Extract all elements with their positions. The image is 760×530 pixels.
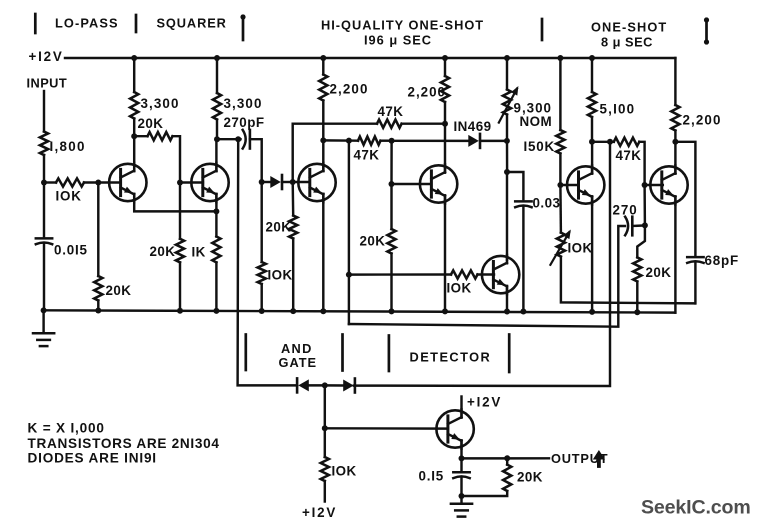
wire cap node down jog to 20K — [637, 225, 645, 257]
wire Q4 base column — [390, 141, 393, 184]
node Q1 collector junction — [131, 133, 137, 139]
wire Q5 base line — [349, 273, 451, 276]
node A input/base junction — [41, 180, 47, 186]
resistor R 20K (Q2 base bias) — [176, 239, 184, 263]
wire 2200-2 down to Q4 collector — [444, 102, 446, 171]
svg-text:0.0I5: 0.0I5 — [54, 243, 88, 258]
diode D1 (squarer) — [270, 175, 282, 189]
wire Q4 base down to 20K — [390, 184, 392, 229]
svg-text:20K: 20K — [646, 265, 672, 280]
wire Q3 emitter to bus — [322, 194, 324, 311]
node AND output junction — [322, 382, 328, 388]
wire Q7 emitter to bus end — [674, 197, 676, 313]
node trigger branch junction — [346, 138, 352, 144]
wire 10K to node B — [84, 181, 98, 183]
svg-text:IOK: IOK — [56, 189, 82, 204]
wire 270pF to corner — [250, 139, 262, 182]
wire 5100 to Q6 collector node — [591, 117, 593, 142]
node rail junction x445 — [442, 55, 448, 61]
wire Q6 base lead — [560, 184, 578, 186]
node label 10K (Q5 base) — [447, 281, 472, 296]
wire Q6 collector — [591, 142, 593, 173]
resistor R 150K — [556, 130, 564, 154]
node label NOM — [520, 114, 553, 129]
transistor Q5 — [482, 255, 519, 294]
node label INPUT — [27, 76, 68, 91]
svg-text:LO-PASS: LO-PASS — [55, 16, 119, 31]
wire node A down to cap — [43, 183, 45, 237]
wire IN469 junction down — [506, 141, 509, 172]
wire 20K Q7base to bus — [636, 282, 638, 313]
transistor Q4 — [420, 164, 457, 203]
wire to 20K feedback — [134, 135, 147, 137]
node detector tick left — [388, 336, 391, 372]
node bus junction x391 — [389, 308, 395, 314]
resistor R 20K (Q7 base) — [633, 257, 641, 281]
resistor R 2,200 (Q4 load) — [441, 76, 449, 102]
svg-text:270pF: 270pF — [224, 115, 265, 130]
node label 47K (lower) — [354, 148, 380, 163]
svg-text:+I2V: +I2V — [302, 505, 337, 520]
wire Q2 collector — [215, 139, 217, 171]
wire 47K right corner to Q7 base — [639, 142, 644, 185]
svg-text:20K: 20K — [517, 470, 543, 485]
wire Q1 emitter down — [134, 194, 216, 211]
wire Q7 base down to cap node — [643, 185, 646, 225]
transistor Q3 — [298, 163, 335, 202]
wire Q1 collector — [133, 136, 135, 170]
svg-text:I50K: I50K — [524, 139, 556, 154]
capacitor C 0.15 — [453, 472, 469, 478]
node label 150K — [524, 139, 556, 154]
wire Q6 emitter to bus — [591, 197, 593, 312]
wire 270 cap right lead — [632, 224, 645, 227]
wire diode cathode lead — [283, 181, 293, 183]
svg-text:GATE: GATE — [279, 355, 318, 370]
transistor Q6 — [567, 165, 604, 204]
resistor R 20K (Q1-Q2 coupling) — [148, 132, 173, 140]
node label 20K (lo-pass) — [106, 283, 132, 298]
wire 150K to Q6 base — [559, 154, 561, 186]
node label 0.015 — [54, 243, 88, 258]
wire Q8 base line — [325, 427, 448, 430]
node label 5,100 — [600, 102, 636, 117]
resistor R 1,800 — [40, 132, 48, 156]
wire ground stub (input) — [42, 310, 44, 333]
svg-text:IOK: IOK — [568, 241, 593, 256]
wire Q6 base down to pot — [559, 185, 562, 233]
wire node B to Q1 base — [98, 181, 120, 183]
wire 10K to Q5 base — [478, 273, 495, 275]
transistor Q8 — [436, 409, 473, 448]
wire trigger junction down — [348, 141, 350, 324]
svg-text:2,200: 2,200 — [330, 82, 369, 97]
svg-text:20K: 20K — [138, 116, 164, 131]
svg-text:2,200: 2,200 — [408, 85, 447, 100]
svg-text:INPUT: INPUT — [27, 76, 68, 91]
wire 3300-1 to Q1 collector node — [133, 119, 135, 137]
svg-text:HI-QUALITY ONE-SHOT: HI-QUALITY ONE-SHOT — [321, 18, 484, 33]
node note transistors — [28, 436, 220, 451]
svg-text:IOK: IOK — [332, 464, 357, 479]
capacitor C 270pF (coupling) — [243, 130, 250, 149]
wire Q2 base node down — [179, 183, 181, 239]
node rail junction x507 — [504, 55, 510, 61]
svg-text:47K: 47K — [354, 148, 380, 163]
node bus junction x507 — [504, 309, 510, 315]
svg-text:2,200: 2,200 — [683, 113, 722, 128]
wire Q3 base node down to 20K — [291, 182, 294, 216]
wire rail to 3300-1 — [133, 58, 135, 92]
svg-text:3,300: 3,300 — [224, 96, 263, 111]
resistor R 10K (squarer shunt) — [258, 262, 266, 284]
node Q2 collector junction — [214, 136, 220, 142]
node one-shot output junction — [607, 139, 613, 145]
node label SQUARER — [157, 16, 227, 31]
node note diodes — [28, 451, 157, 466]
svg-text:DETECTOR: DETECTOR — [410, 350, 492, 365]
node rail junction x560 — [557, 55, 563, 61]
wire AND input 1 column — [238, 139, 298, 385]
node section tick 1 — [34, 14, 37, 33]
node label 1K — [192, 245, 206, 260]
resistor R 47K (upper cross-coupling) — [377, 120, 402, 128]
wire 3300-2 down to node — [216, 120, 218, 140]
svg-text:+I2V: +I2V — [467, 395, 502, 410]
svg-text:0.03: 0.03 — [533, 196, 561, 211]
svg-text:68pF: 68pF — [705, 253, 739, 268]
node label OUTPUT — [551, 451, 608, 466]
svg-text:20K: 20K — [266, 220, 292, 235]
node Q1/Q2 emitter junction — [213, 208, 219, 214]
wire Q2 emitter down — [215, 194, 217, 236]
svg-text:SeekIC.com: SeekIC.com — [641, 497, 751, 519]
wire 20K Q3base to bus — [292, 239, 294, 312]
node label 47K (upper) — [378, 104, 404, 119]
wire 0.03 to bus — [522, 208, 524, 312]
resistor R 2,200 (Q3 load) — [319, 75, 327, 101]
node section tick 5 — [704, 17, 709, 44]
node label GATE — [279, 355, 318, 370]
capacitor C 0.03 — [515, 201, 531, 207]
node bus junction x323 — [320, 308, 326, 314]
resistor R 10K (variable) — [557, 233, 565, 257]
node rail junction x134 — [131, 55, 137, 61]
node section tick 2 — [135, 15, 138, 32]
wire 1800 to node A — [43, 155, 45, 183]
node Q4 collector 47K junction — [442, 121, 448, 127]
svg-text:IOK: IOK — [268, 268, 293, 283]
resistor R 10K (Q5 base) — [451, 270, 478, 278]
wire AND output down — [324, 385, 326, 428]
resistor R 47K (lower cross-coupling) — [358, 137, 381, 145]
node label +12V (bottom) — [302, 505, 337, 520]
node bus junction x592 — [589, 309, 595, 315]
wire 20K Q4base to bus — [390, 254, 392, 312]
svg-text:TRANSISTORS ARE 2NI304: TRANSISTORS ARE 2NI304 — [28, 436, 220, 451]
svg-text:AND: AND — [281, 341, 313, 356]
node watermark SeekIC.com — [641, 497, 751, 519]
svg-text:SQUARER: SQUARER — [157, 16, 227, 31]
svg-text:20K: 20K — [150, 244, 176, 259]
wire 10K to +12V stub — [324, 481, 326, 502]
wire 20K output to ground node — [462, 491, 508, 496]
svg-text:8 μ SEC: 8 μ SEC — [601, 35, 653, 50]
node bus junction x523 — [520, 309, 526, 315]
arrow 9300 pot — [499, 86, 519, 123]
wire rail to 5100 — [591, 58, 593, 92]
node label 2,200 (Q4) — [408, 85, 447, 100]
node bus junction x261 — [259, 308, 265, 314]
wire rail to 150K — [559, 58, 561, 130]
node bus junction x44 — [41, 307, 47, 313]
svg-text:20K: 20K — [360, 234, 386, 249]
node label 9,300 — [514, 101, 553, 116]
resistor R 2,200 (Q7 load) — [671, 105, 679, 131]
wire AND output to D4 — [325, 384, 343, 387]
wire Q2 base lead — [180, 181, 203, 183]
wire Q3 base lead — [293, 181, 310, 183]
wire output line — [462, 457, 550, 460]
node label 20K (feedback) — [138, 116, 164, 131]
node 270 cap junction — [642, 222, 648, 228]
node label 47K (right) — [616, 148, 642, 163]
ground symbol (left) — [33, 333, 54, 346]
arrow 10K pot — [550, 230, 570, 265]
node label 0.15 — [419, 469, 445, 484]
resistor R 10K (lo-pass series) — [56, 178, 84, 186]
wire pot down corner — [561, 257, 695, 304]
node Q2 base junction — [177, 180, 183, 186]
svg-text:DIODES ARE INI9I: DIODES ARE INI9I — [28, 451, 157, 466]
wire Q8 collector stub — [460, 397, 462, 417]
resistor R 9,300 NOM (variable) — [503, 90, 511, 115]
wire rail to 3300-2 — [216, 58, 218, 93]
wire 47K upper to Q4 collector column — [402, 122, 445, 124]
node bus junction x445 — [442, 308, 448, 314]
node label 1,800 — [50, 139, 86, 154]
node ground junction (output) — [459, 493, 465, 499]
wire Q8 base down to 10K — [324, 428, 326, 457]
wire Q5 emitter to bus — [506, 288, 508, 312]
node AND-gate branch junction — [235, 136, 241, 142]
wire 20K output column — [506, 458, 508, 464]
node 20K output junction — [504, 455, 510, 461]
wire rail to 2200-2 — [444, 58, 446, 76]
svg-text:20K: 20K — [106, 283, 132, 298]
node label 10K (output) — [332, 464, 357, 479]
svg-text:5,I00: 5,I00 — [600, 102, 636, 117]
node label DETECTOR — [410, 350, 492, 365]
wire 20K feedback corner — [173, 136, 181, 182]
node and-gate tick right — [341, 335, 344, 371]
wire input lead — [43, 91, 45, 132]
wire Q4 base lead — [392, 183, 432, 185]
wire D3 to AND output — [308, 384, 325, 386]
node Q5 base branch junction — [346, 272, 352, 278]
node output junction — [459, 455, 465, 461]
node label +12V (top-left supply) — [29, 49, 64, 64]
node bus junction x293 — [290, 308, 296, 314]
arrow output — [593, 450, 605, 466]
node label AND — [281, 341, 313, 356]
svg-text:NOM: NOM — [520, 114, 553, 129]
node label 20K (output) — [517, 470, 543, 485]
capacitor C 68pF — [687, 257, 703, 263]
wire node A to 10K — [44, 181, 56, 183]
node section tick 3 — [240, 14, 245, 40]
diode D4 (AND input 2) — [343, 379, 355, 393]
node Q6 collector junction — [589, 139, 595, 145]
svg-text:3,300: 3,300 — [141, 96, 180, 111]
node Q3 base junction — [290, 179, 296, 185]
wire diode anode lead — [262, 181, 271, 183]
svg-text:IN469: IN469 — [454, 119, 492, 134]
node label LO-PASS — [55, 16, 119, 31]
node Q4 base branch junction — [389, 138, 395, 144]
node bus junction x98 — [95, 308, 101, 314]
wire Q7 collector — [674, 142, 676, 173]
node detector tick right — [508, 335, 511, 373]
wire rail to 2200-1 — [322, 58, 324, 75]
node label HI-QUALITY ONE-SHOT — [321, 18, 484, 33]
svg-text:0.I5: 0.I5 — [419, 469, 445, 484]
node 0.03 branch junction — [504, 169, 510, 175]
resistor R 20K (Q3 base) — [289, 216, 297, 239]
node label 3,300 (Q1) — [141, 96, 180, 111]
wire 9300 to IN469 junction — [506, 115, 508, 141]
wire 270 cap left column — [349, 226, 625, 327]
node Q6 base junction — [557, 182, 563, 188]
wire one-shot output column — [354, 142, 610, 386]
node label 20K (Q2 bias) — [150, 244, 176, 259]
transistor Q2 — [191, 163, 228, 202]
wire cap 0.015 to bus — [43, 245, 45, 311]
svg-text:K = X I,000: K = X I,000 — [28, 421, 105, 436]
node label ONE-SHOT — [591, 20, 667, 35]
node Q8 base junction — [322, 425, 328, 431]
node 9300/IN469 junction — [504, 138, 510, 144]
resistor R 3,300 (Q2 load) — [213, 93, 221, 120]
node label 10K — [56, 189, 82, 204]
resistor R 5,100 — [588, 92, 596, 117]
wire 2200-3 down — [674, 131, 676, 142]
wire diode node down to 10K — [260, 182, 262, 262]
node Q3 collector junction — [320, 137, 326, 143]
node label 20K (Q4 base) — [360, 234, 386, 249]
node label 196 uSEC — [364, 33, 432, 48]
wire to IN469 anode — [392, 140, 469, 143]
node Q4 base junction — [389, 181, 395, 187]
diode D3 (AND input 1) — [297, 378, 309, 392]
wire Q5 collector — [506, 172, 508, 260]
resistor R 20K (lo-pass shunt) — [94, 276, 102, 301]
node label 68pF — [705, 253, 739, 268]
node label 0.03 — [533, 196, 561, 211]
wire 20K bias to bus — [179, 262, 181, 310]
node rail junction x592 — [589, 55, 595, 61]
node B Q1 base node — [95, 180, 101, 186]
ground symbol (output) — [451, 504, 472, 517]
node and-gate tick left — [244, 335, 247, 371]
svg-text:ONE-SHOT: ONE-SHOT — [591, 20, 667, 35]
wire 68pF column — [675, 142, 695, 256]
node label IN469 — [454, 119, 492, 134]
node label 10K (squarer) — [268, 268, 293, 283]
svg-text:I96 μ SEC: I96 μ SEC — [364, 33, 432, 48]
node label +12V (Q8 collector) — [467, 395, 502, 410]
node label 8 uSEC — [601, 35, 653, 50]
node label 2,200 (Q3) — [330, 82, 369, 97]
node Q7 collector junction — [672, 139, 678, 145]
node label 10K (pot) — [568, 241, 593, 256]
wire rail corner to 2200-3 — [674, 58, 676, 105]
resistor R 20K (output) — [503, 465, 511, 491]
wire Q7 base lead — [645, 184, 663, 186]
wire Q2 collector node right — [217, 138, 241, 140]
wire +12V rail — [65, 57, 675, 59]
svg-text:IOK: IOK — [447, 281, 472, 296]
wire Q3 collector node right — [323, 139, 358, 142]
node Q7 base junction — [642, 182, 648, 188]
svg-text:I,800: I,800 — [50, 139, 86, 154]
node bus junction x637 — [634, 309, 640, 315]
wire ground stub (output) — [460, 496, 462, 504]
node label 20K (Q7 base) — [646, 265, 672, 280]
wire node B down to 20K — [97, 183, 99, 277]
node label 270 — [613, 203, 638, 218]
wire Q3 base node up — [293, 124, 377, 182]
wire Q4 emitter to bus — [444, 196, 446, 312]
wire emitter to 0.15 cap — [460, 458, 462, 470]
node label 3,300 (Q2) — [224, 96, 263, 111]
resistor R 3,300 (Q1 load) — [130, 92, 138, 119]
node section tick 4 — [541, 19, 544, 40]
wire 2200-1 down — [322, 101, 324, 171]
capacitor C 0.015 — [36, 238, 52, 244]
diode D2 IN469 — [468, 134, 480, 148]
wire 68pF down corner — [694, 263, 696, 303]
svg-text:+I2V: +I2V — [29, 49, 64, 64]
wire 47K lower to Q4 base junction — [381, 139, 392, 141]
node rail junction x217 — [214, 55, 220, 61]
wire 0.15 to ground node — [460, 478, 462, 496]
wire 1K to bus — [215, 262, 217, 311]
svg-text:47K: 47K — [616, 148, 642, 163]
svg-text:47K: 47K — [378, 104, 404, 119]
node label 20K (Q3 base) — [266, 220, 292, 235]
node bus junction x180 — [177, 308, 183, 314]
resistor R 1K (emitter) — [212, 237, 220, 263]
resistor R 47K (right) — [614, 138, 640, 146]
transistor Q7 — [650, 165, 687, 204]
node diode anode junction — [259, 179, 265, 185]
wire Q8 emitter down — [460, 441, 462, 459]
wire rail to 9300 — [506, 58, 508, 90]
node bus junction x216 — [213, 308, 219, 314]
capacitor C 270 — [625, 217, 632, 236]
wire IN469 cathode to junction — [481, 140, 507, 142]
wire 10K squarer to bus — [260, 284, 262, 311]
node note K=X1000 — [28, 421, 105, 436]
node label 2,200 (Q7) — [683, 113, 722, 128]
wire 0.03 branch — [507, 172, 523, 199]
transistor Q1 — [109, 163, 146, 202]
wire 20K to bus — [97, 301, 99, 311]
node rail junction x323 — [320, 55, 326, 61]
wire ground bus — [43, 310, 675, 312]
wire Q6 collector node right — [592, 141, 614, 143]
